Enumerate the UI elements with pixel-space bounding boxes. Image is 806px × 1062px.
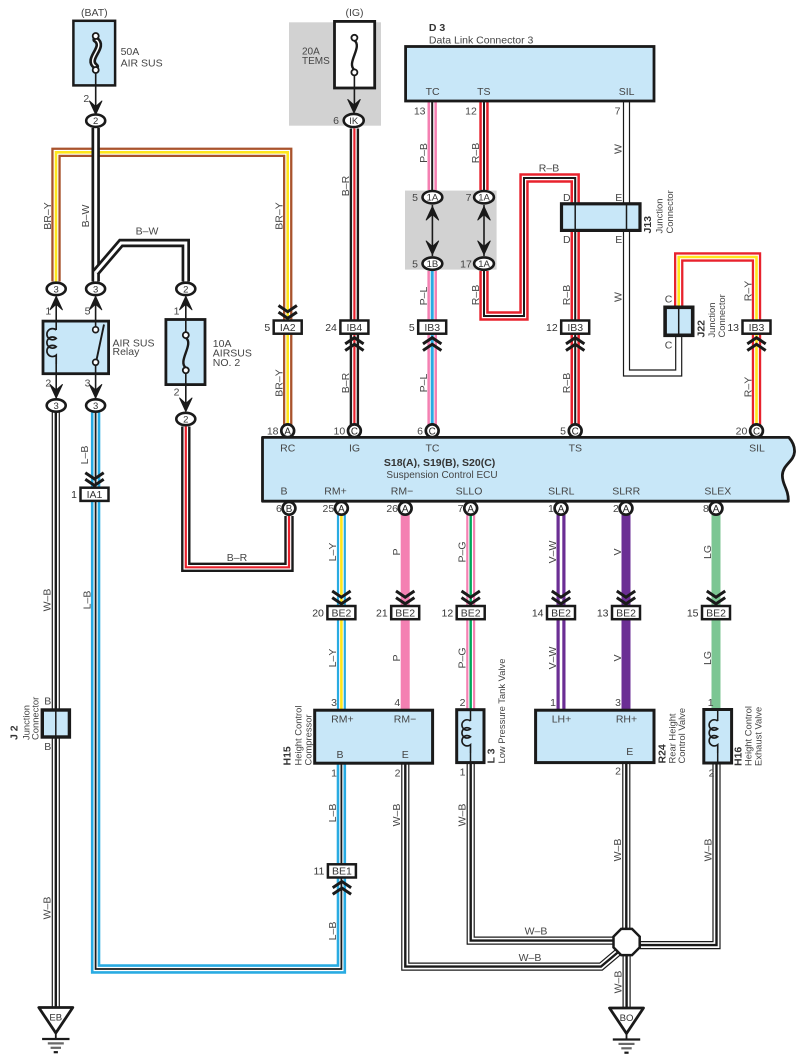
svg-text:1A: 1A — [478, 193, 490, 204]
wire W-B from ground junction down to ground BO — [622, 955, 630, 1010]
svg-text:IK: IK — [349, 116, 359, 127]
svg-text:W–B: W–B — [391, 804, 403, 827]
svg-text:P–L: P–L — [418, 374, 430, 393]
svg-text:(IG): (IG) — [345, 7, 363, 19]
svg-text:4: 4 — [394, 697, 400, 709]
svg-text:RC: RC — [280, 443, 296, 455]
svg-text:A: A — [338, 504, 345, 515]
svg-text:BE2: BE2 — [706, 607, 726, 619]
svg-text:5: 5 — [409, 322, 415, 334]
svg-text:Exhaust Valve: Exhaust Valve — [753, 707, 764, 766]
svg-text:2: 2 — [613, 503, 619, 515]
wire BR-Y from AIR SUS relay pin 1 up across to IA2 and down to ECU RC — [56, 152, 288, 425]
wire LG from ECU SLEX down through BE2 to exhaust valve pin 1 — [712, 515, 721, 712]
svg-text:R–B: R–B — [561, 285, 573, 305]
svg-text:D: D — [563, 234, 571, 246]
svg-text:L–Y: L–Y — [327, 543, 339, 562]
wire B-R from IG fuse IK down through IB4 to ECU IG — [350, 129, 359, 426]
arrow relay pin 1 — [50, 296, 62, 310]
fuse 10A AIRSUS NO.2 — [166, 320, 205, 385]
wire W from DLC3 SIL down through J13 and U-turn to J22 — [627, 101, 679, 373]
svg-text:1: 1 — [331, 768, 337, 780]
svg-text:1: 1 — [174, 306, 180, 318]
svg-text:6: 6 — [276, 503, 282, 515]
ECU pin 26 (A) RM- — [399, 502, 412, 515]
svg-text:A: A — [402, 504, 409, 515]
link between connectors 1A and 1B — [431, 205, 433, 256]
connector 14 BE2 on V-W — [532, 591, 575, 619]
svg-text:20: 20 — [312, 607, 324, 619]
svg-text:SIL: SIL — [749, 443, 765, 455]
svg-text:BE2: BE2 — [395, 607, 415, 619]
svg-text:SLRL: SLRL — [548, 486, 574, 498]
low pressure tank valve L3 — [457, 710, 484, 763]
wire P from ECU RM- down through BE2 to compressor RM- — [401, 515, 410, 712]
svg-text:2: 2 — [83, 93, 89, 105]
svg-text:3: 3 — [54, 284, 59, 295]
ECU pin 6 (C) TC — [426, 424, 439, 437]
svg-text:B–R: B–R — [227, 552, 248, 564]
svg-text:SLLO: SLLO — [456, 486, 483, 498]
svg-text:W: W — [612, 292, 624, 302]
svg-text:W–B: W–B — [42, 589, 54, 612]
svg-text:BE2: BE2 — [616, 607, 636, 619]
ECU pin 1 (A) SLRL — [555, 502, 568, 515]
wire P-L from connector 1B down through IB3 to ECU TC — [427, 271, 437, 425]
svg-text:BE1: BE1 — [332, 866, 352, 878]
svg-text:C: C — [665, 340, 673, 352]
svg-text:21: 21 — [376, 607, 388, 619]
svg-text:AIR SUS: AIR SUS — [121, 57, 163, 69]
svg-text:V: V — [612, 654, 624, 661]
svg-text:B: B — [280, 486, 287, 498]
svg-text:1: 1 — [460, 767, 466, 779]
wire W-B from relay pin 2 down through J2 to ground EB — [52, 413, 60, 1010]
svg-text:12: 12 — [442, 607, 454, 619]
svg-text:R–B: R–B — [470, 143, 482, 163]
connector 13 BE2 on V — [597, 591, 640, 619]
svg-text:3: 3 — [615, 697, 621, 709]
svg-text:R–B: R–B — [561, 373, 573, 393]
svg-text:IB3: IB3 — [567, 322, 583, 334]
fuse 50A AIR SUS (BAT) — [73, 21, 115, 86]
svg-text:1: 1 — [548, 503, 554, 515]
svg-text:2: 2 — [93, 116, 98, 127]
svg-text:L–B: L–B — [79, 446, 91, 465]
svg-text:B: B — [336, 749, 343, 761]
wire R-B from connector 1A looping through J13 and IB3 to ECU TS — [484, 178, 575, 425]
svg-text:R–B: R–B — [470, 285, 482, 305]
svg-text:IA1: IA1 — [87, 489, 103, 501]
svg-text:D 3: D 3 — [429, 22, 446, 34]
svg-text:BE2: BE2 — [331, 607, 351, 619]
svg-text:RM−: RM− — [394, 714, 416, 726]
svg-text:SLRR: SLRR — [612, 486, 640, 498]
svg-text:P–L: P–L — [418, 287, 430, 306]
svg-text:3: 3 — [54, 401, 59, 412]
svg-text:LG: LG — [702, 651, 714, 665]
connector arrow at fuse BAT pin 2 — [90, 101, 102, 115]
svg-text:Suspension Control ECU: Suspension Control ECU — [386, 470, 497, 481]
svg-text:A: A — [623, 504, 630, 515]
svg-text:2: 2 — [395, 768, 401, 780]
svg-text:A: A — [284, 426, 291, 437]
svg-text:Relay: Relay — [113, 346, 141, 358]
svg-text:TC: TC — [426, 86, 440, 98]
wire stub fuse BAT pin 2 — [95, 85, 97, 113]
svg-text:V–W: V–W — [547, 541, 559, 564]
svg-text:B–R: B–R — [340, 372, 352, 393]
svg-text:18: 18 — [267, 426, 279, 438]
svg-text:Junction: Junction — [654, 199, 665, 234]
connector arrow at fuse IG — [348, 100, 360, 114]
svg-text:1A: 1A — [427, 193, 439, 204]
svg-text:Control Valve: Control Valve — [676, 708, 687, 764]
ECU pin 5 (C) TS — [569, 424, 582, 437]
gray highlight area around IG fuse — [289, 22, 381, 125]
svg-text:IB3: IB3 — [424, 322, 440, 334]
svg-text:5: 5 — [264, 322, 270, 334]
svg-text:EB: EB — [49, 1013, 62, 1024]
svg-text:W–B: W–B — [519, 952, 542, 964]
connector 1A on TS line lower — [474, 257, 494, 270]
svg-text:2: 2 — [183, 284, 188, 295]
svg-text:B: B — [44, 741, 51, 753]
svg-text:D: D — [563, 192, 571, 204]
svg-text:3: 3 — [331, 697, 337, 709]
svg-text:5: 5 — [412, 192, 418, 204]
svg-text:B: B — [286, 504, 293, 515]
ground EB — [39, 1008, 73, 1053]
svg-text:2: 2 — [709, 768, 715, 780]
svg-text:E: E — [626, 746, 633, 758]
in-line connector 2 below fuse BAT — [86, 115, 105, 128]
svg-text:V–W: V–W — [547, 647, 559, 670]
ECU pin 25 (A) RM+ — [335, 502, 348, 515]
wire W-B from exhaust valve pin 2 to ground junction — [640, 763, 717, 946]
svg-text:E: E — [615, 234, 622, 246]
svg-text:1: 1 — [71, 489, 77, 501]
svg-text:C: C — [572, 426, 579, 437]
wire B-W branch to fuse AIRSUS NO.2 pin 1 — [96, 243, 186, 282]
svg-text:5: 5 — [412, 258, 418, 270]
arrow down to connector 1B — [426, 241, 438, 255]
wire B-W from fuse AIR SUS down to relay pin 5 — [91, 128, 99, 282]
svg-text:Connector: Connector — [664, 190, 675, 233]
svg-text:C: C — [753, 426, 760, 437]
svg-text:Low Pressure Tank Valve: Low Pressure Tank Valve — [496, 659, 507, 764]
wire stub fuse IG pin 6 — [353, 88, 355, 108]
svg-text:(BAT): (BAT) — [81, 7, 108, 19]
svg-text:B–W: B–W — [80, 205, 92, 228]
relay pin 2 stub — [55, 374, 57, 398]
connector 5 IB3 on P-L — [409, 321, 446, 351]
svg-text:P–G: P–G — [456, 647, 468, 668]
svg-text:RH+: RH+ — [616, 714, 637, 726]
wire L-Y from ECU RM+ down through BE2 to compressor RM+ — [337, 515, 346, 712]
svg-text:6: 6 — [333, 115, 339, 127]
svg-text:15: 15 — [687, 607, 699, 619]
arrow up to connector 1A TS — [478, 207, 490, 221]
svg-text:E: E — [402, 749, 409, 761]
ground BO — [610, 1008, 644, 1053]
svg-text:W–B: W–B — [457, 804, 469, 827]
svg-text:2: 2 — [615, 766, 621, 778]
svg-text:L–B: L–B — [81, 591, 93, 610]
svg-text:L–Y: L–Y — [327, 649, 339, 668]
fuse No2 pin 1 stub — [185, 297, 187, 320]
relay pin 3 stub — [95, 374, 97, 398]
svg-text:R–B: R–B — [539, 163, 559, 175]
svg-text:1: 1 — [708, 697, 714, 709]
svg-text:5: 5 — [85, 306, 91, 318]
svg-text:3: 3 — [93, 284, 98, 295]
svg-text:BO: BO — [620, 1013, 634, 1024]
svg-text:SIL: SIL — [619, 86, 635, 98]
svg-text:7: 7 — [615, 106, 621, 118]
svg-text:10: 10 — [334, 426, 346, 438]
svg-text:SLEX: SLEX — [704, 486, 731, 498]
wire W-B from tank valve pin 1 to ground junction — [471, 762, 614, 941]
rear height control valve R24 — [536, 710, 654, 762]
svg-text:Compressor: Compressor — [303, 714, 314, 765]
svg-text:14: 14 — [532, 607, 544, 619]
connector 3 above relay pin 1 — [47, 283, 66, 296]
svg-text:6: 6 — [417, 426, 423, 438]
svg-text:LH+: LH+ — [552, 714, 572, 726]
in-line connector IK below fuse IG — [344, 114, 364, 127]
svg-text:17: 17 — [460, 258, 472, 270]
svg-text:RM+: RM+ — [324, 486, 346, 498]
svg-text:IG: IG — [349, 443, 360, 455]
svg-text:Connector: Connector — [716, 294, 727, 337]
suspension control ECU S18/S19/S20 — [263, 437, 795, 501]
wire P-G from ECU SLLO down through BE2 to tank valve pin 2 — [466, 515, 475, 712]
AIR SUS relay — [43, 321, 109, 374]
svg-text:20: 20 — [736, 426, 748, 438]
svg-text:E: E — [615, 192, 622, 204]
ECU pin 6 (B) B — [283, 502, 296, 515]
svg-text:24: 24 — [325, 322, 337, 334]
svg-text:W–B: W–B — [612, 971, 624, 994]
svg-text:L–B: L–B — [327, 922, 339, 941]
svg-text:B–W: B–W — [136, 226, 159, 238]
svg-text:IA2: IA2 — [280, 322, 296, 334]
svg-text:A: A — [558, 504, 565, 515]
svg-text:W–B: W–B — [42, 897, 54, 920]
svg-text:TS: TS — [569, 443, 582, 455]
arrow up to connector 1A — [426, 207, 438, 221]
svg-text:BE2: BE2 — [461, 607, 481, 619]
connector 3 below relay pin 2 — [47, 399, 66, 412]
data link connector D3 — [406, 47, 654, 102]
svg-text:3: 3 — [85, 378, 91, 390]
svg-text:B–R: B–R — [340, 175, 352, 196]
svg-text:1B: 1B — [427, 259, 439, 270]
svg-text:BE2: BE2 — [551, 607, 571, 619]
svg-text:IB3: IB3 — [749, 322, 765, 334]
junction connector J2 — [42, 710, 69, 737]
svg-text:12: 12 — [465, 106, 477, 118]
ECU pin 7 (A) SLLO — [464, 502, 477, 515]
svg-text:Connector: Connector — [30, 697, 41, 740]
svg-text:LG: LG — [702, 545, 714, 559]
svg-text:13: 13 — [597, 607, 609, 619]
svg-text:W: W — [612, 144, 624, 154]
svg-text:RM+: RM+ — [331, 714, 353, 726]
svg-text:B: B — [44, 696, 51, 708]
svg-text:S18(A), S19(B), S20(C): S18(A), S19(B), S20(C) — [384, 457, 495, 469]
connector 3 below relay pin 3 — [86, 399, 105, 412]
ECU pin 10 (C) IG — [348, 424, 361, 437]
connector 11 BE1 on L-B — [313, 864, 355, 894]
svg-text:50A: 50A — [121, 46, 140, 58]
svg-text:TEMS: TEMS — [302, 56, 330, 67]
wire P-B from DLC3 TC down to connector 1A — [428, 101, 437, 190]
wire V-W from ECU SLRL down through BE2 to valve LH+ — [557, 515, 566, 712]
svg-text:W–B: W–B — [612, 839, 624, 862]
connector 21 BE2 on P — [376, 591, 419, 619]
svg-text:11: 11 — [313, 866, 324, 878]
junction connector J13 — [562, 204, 641, 231]
link between connectors 1A and 1A — [483, 205, 485, 256]
wire W-B from valve R24 pin E down to ground junction — [622, 762, 630, 929]
svg-text:7: 7 — [466, 192, 472, 204]
svg-text:13: 13 — [727, 322, 739, 334]
svg-text:NO. 2: NO. 2 — [213, 357, 241, 369]
svg-text:26: 26 — [386, 503, 398, 515]
svg-text:2: 2 — [174, 387, 180, 399]
svg-text:13: 13 — [414, 106, 426, 118]
svg-text:R–Y: R–Y — [742, 281, 754, 301]
svg-text:IB4: IB4 — [347, 322, 363, 334]
svg-text:P–B: P–B — [418, 143, 430, 163]
connector 5 IA2 on BR-Y — [264, 306, 301, 334]
svg-text:P–G: P–G — [456, 541, 468, 562]
svg-text:V: V — [612, 548, 624, 555]
svg-text:J 2: J 2 — [9, 725, 21, 740]
fuse 20A TEMS (IG) — [335, 21, 375, 88]
connector 2 above fuse No2 — [176, 283, 195, 296]
svg-text:A: A — [713, 504, 720, 515]
svg-text:25: 25 — [323, 503, 335, 515]
wire W-B from compressor pin E to ground junction — [405, 762, 619, 967]
svg-text:3: 3 — [93, 401, 98, 412]
wire V from ECU SLRR down through BE2 to valve RH+ — [622, 515, 631, 712]
arrow fuse No2 pin 1 — [180, 296, 192, 310]
wire L-B from relay pin 3 down through IA1 and around up through BE1 to compressor pin B — [96, 413, 342, 970]
svg-text:8: 8 — [703, 503, 709, 515]
svg-text:1A: 1A — [478, 259, 490, 270]
connector 15 BE2 on LG — [687, 591, 730, 619]
wire B-R from fuse AIRSUS NO.2 pin 2 around to ECU pin B — [186, 427, 289, 568]
wire R-B from DLC3 TS down to connector 1A — [479, 101, 488, 190]
gray highlight area around DLC3 sub-connectors 1A/1B — [405, 191, 497, 270]
arrow fuse No2 pin 2 — [180, 398, 192, 412]
svg-text:P: P — [391, 548, 403, 555]
svg-text:1: 1 — [550, 697, 556, 709]
connector 13 IB3 on R-Y — [727, 321, 770, 351]
svg-text:TC: TC — [426, 443, 440, 455]
ECU pin 2 (A) SLRR — [620, 502, 633, 515]
connector 2 below fuse No2 — [176, 413, 195, 426]
ECU pin 8 (A) SLEX — [710, 502, 723, 515]
svg-text:12: 12 — [546, 322, 558, 334]
connector 1A on TC line — [423, 191, 443, 204]
arrow down to connector 1A TS — [478, 241, 490, 255]
svg-text:2: 2 — [183, 414, 188, 425]
svg-text:J13: J13 — [642, 216, 654, 234]
connector 1A on TS line upper — [474, 191, 494, 204]
svg-text:5: 5 — [560, 426, 566, 438]
svg-text:2: 2 — [45, 378, 51, 390]
svg-text:C: C — [429, 426, 436, 437]
svg-text:A: A — [467, 504, 474, 515]
svg-text:RM−: RM− — [391, 486, 413, 498]
arrow relay pin 2 — [50, 385, 62, 399]
svg-text:7: 7 — [458, 503, 464, 515]
arrow relay pin 3 — [89, 385, 101, 399]
relay pin 1 stub — [55, 297, 57, 322]
connector 24 IB4 on B-R — [325, 321, 368, 351]
svg-text:BR–Y: BR–Y — [274, 369, 286, 396]
svg-text:BR–Y: BR–Y — [42, 202, 54, 229]
arrow relay pin 5 — [89, 296, 101, 310]
ECU pin 18 (A) RC — [281, 424, 294, 437]
fuse No2 pin 2 stub — [185, 385, 187, 411]
ECU pin 20 (C) SIL — [750, 424, 763, 437]
svg-text:L–B: L–B — [327, 804, 339, 823]
connector 3 above relay pin 5 — [86, 283, 105, 296]
height control compressor H15 — [315, 710, 433, 763]
connector 1B on TC line — [423, 257, 443, 270]
svg-text:W–B: W–B — [525, 926, 548, 938]
junction connector J22 — [665, 307, 693, 335]
height control exhaust valve H16 — [704, 710, 732, 764]
connector 20 BE2 on L-Y — [312, 591, 355, 619]
relay pin 5 stub — [95, 297, 97, 322]
svg-text:R–Y: R–Y — [742, 377, 754, 397]
wire R-Y from J22 up across through IB3 to ECU SIL — [679, 257, 757, 425]
svg-text:W–B: W–B — [702, 839, 714, 862]
svg-text:1: 1 — [45, 306, 51, 318]
svg-text:C: C — [665, 293, 673, 305]
connector 1 IA1 on L-B — [71, 473, 108, 501]
svg-text:TS: TS — [477, 86, 490, 98]
svg-text:BR–Y: BR–Y — [274, 202, 286, 229]
svg-text:P: P — [391, 654, 403, 661]
svg-text:2: 2 — [460, 697, 466, 709]
connector 12 BE2 on P-G — [442, 591, 485, 619]
ground junction node (octagon) — [614, 929, 640, 955]
svg-text:Data Link Connector 3: Data Link Connector 3 — [429, 34, 534, 46]
svg-text:C: C — [351, 426, 358, 437]
connector 12 IB3 on R-B — [546, 321, 589, 351]
